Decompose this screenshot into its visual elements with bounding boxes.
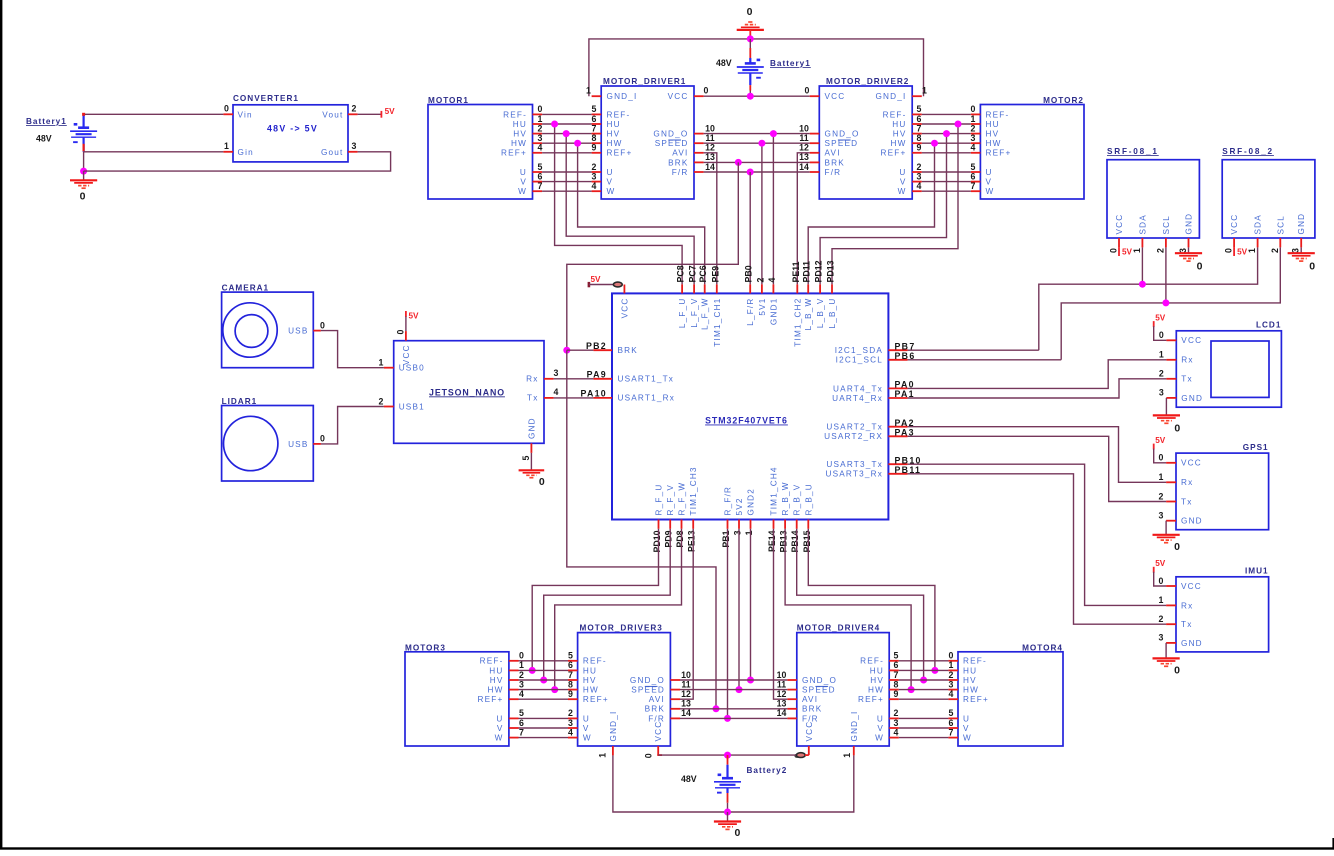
svg-text:HV: HV	[583, 676, 597, 685]
svg-text:L_F_U: L_F_U	[678, 298, 687, 329]
wire HV driver4-motor4	[899, 679, 949, 681]
node HW4 junction	[908, 686, 915, 693]
wire HW motor1-driver1	[542, 142, 592, 144]
wire HW-R drop to PD11	[808, 143, 934, 284]
svg-text:7: 7	[538, 181, 543, 191]
wire 5V2 PB1-3 drop to SPEED row	[738, 529, 740, 690]
svg-text:7: 7	[949, 727, 954, 737]
pin REF+ of MOTOR_DRIVER4 right (stub+number+label)	[889, 698, 899, 700]
wire GND_O row bottom	[680, 679, 787, 681]
sbc U11 JETSON_NANO box	[394, 341, 544, 444]
svg-text:TIM1_CH4: TIM1_CH4	[770, 466, 779, 515]
svg-text:4: 4	[568, 727, 573, 737]
pin GND_I of driver2	[912, 95, 922, 97]
camera lens outer circle	[223, 303, 277, 357]
pin W of MOTOR2 (stub+number+label)	[971, 190, 981, 192]
svg-text:5V: 5V	[1155, 314, 1166, 323]
pin BRK of MOTOR_DRIVER4 left (stub+number+label)	[787, 708, 796, 710]
node HU-L junction	[551, 121, 558, 128]
svg-text:R_B_U: R_B_U	[804, 483, 813, 515]
pin GND of LCD1 (stub+number+label)	[1166, 397, 1176, 399]
node HU4 junction	[931, 667, 938, 674]
svg-text:0: 0	[1159, 453, 1164, 463]
pin GND1 / 4 (STM32 top stub+labels)	[772, 284, 774, 293]
pin HW of MOTOR_DRIVER2 right (stub+number+label)	[912, 142, 922, 144]
svg-text:L_F_V: L_F_V	[690, 298, 699, 328]
svg-text:HW: HW	[511, 139, 527, 148]
svg-text:PD10: PD10	[652, 530, 662, 552]
svg-text:48V: 48V	[716, 58, 732, 68]
svg-text:MOTOR_DRIVER2: MOTOR_DRIVER2	[826, 77, 909, 86]
svg-text:0: 0	[1159, 330, 1164, 340]
svg-text:GND: GND	[1297, 213, 1306, 235]
svg-text:VCC: VCC	[1230, 214, 1239, 235]
svg-text:Tx: Tx	[1181, 620, 1193, 629]
svg-text:VCC: VCC	[1181, 459, 1202, 468]
ground symbol (LCD1)	[1153, 415, 1180, 423]
pin AVI of MOTOR_DRIVER1 right (stub+number+label)	[694, 152, 704, 154]
wire R_B_V PB14 drop to HV4	[797, 529, 924, 680]
wire REF+ motor1-driver1	[542, 152, 592, 154]
overbar on SPEED driver1	[668, 139, 681, 141]
motor M2 box	[980, 105, 1084, 200]
svg-text:HU: HU	[892, 120, 906, 129]
svg-text:UART4_Tx: UART4_Tx	[833, 384, 883, 393]
driver U2 MOTOR_DRIVER1 box	[601, 86, 694, 199]
pin VCC of IMU1 (stub+number+label)	[1166, 585, 1176, 587]
svg-text:HV: HV	[607, 130, 621, 139]
svg-text:F/R: F/R	[672, 168, 689, 177]
node rail-vcc junction	[747, 93, 754, 100]
svg-text:Gin: Gin	[238, 148, 254, 157]
pin U of MOTOR4 (stub+number+label)	[948, 717, 958, 719]
svg-text:HU: HU	[963, 666, 977, 675]
pin VCC of driver4 (bottom)	[808, 746, 810, 755]
node BRK junction	[735, 159, 742, 166]
wire jetson 5V to VCC stub	[405, 317, 407, 332]
pin USART2_RX / PA3 (STM32 right stub+labels)	[888, 435, 907, 437]
node SDA junction	[1139, 281, 1146, 288]
node SPEED junction	[758, 140, 765, 147]
wire HU motor1-driver1	[542, 123, 592, 125]
svg-text:W: W	[986, 187, 995, 196]
pin REF- of MOTOR3 (stub+number+label)	[509, 660, 519, 662]
motor M4 box	[958, 652, 1063, 746]
pin UART4_Tx / PA0 (STM32 right stub+labels)	[888, 387, 907, 389]
wire AVI driver2 to TIM1_CH2	[797, 153, 809, 285]
svg-text:5V: 5V	[1237, 248, 1248, 257]
svg-text:Tx: Tx	[1181, 375, 1193, 384]
svg-text:0: 0	[1224, 248, 1234, 253]
wire Vout to 5V net label	[358, 113, 382, 115]
svg-text:I2C1_SDA: I2C1_SDA	[835, 346, 883, 355]
junction bubble at STM32 VCC	[613, 282, 622, 287]
svg-text:2: 2	[949, 670, 954, 680]
pin U of MOTOR_DRIVER2 right (stub+number+label)	[912, 171, 922, 173]
pin REF- of MOTOR2 (stub+number+label)	[971, 113, 981, 115]
wire REF- motor1-driver1	[542, 113, 592, 115]
svg-text:PE11: PE11	[791, 261, 801, 282]
svg-text:5: 5	[949, 708, 954, 718]
svg-text:SDA: SDA	[1254, 214, 1263, 234]
node GND_O junction	[770, 130, 777, 137]
svg-text:TIM1_CH1: TIM1_CH1	[713, 298, 722, 347]
svg-text:4: 4	[949, 689, 954, 699]
battery B3 (bottom)	[714, 765, 741, 794]
ground symbol (SRF1)	[1175, 253, 1202, 261]
node HW-R junction	[931, 140, 938, 147]
svg-text:GND_O: GND_O	[825, 130, 860, 139]
pin REF- of MOTOR_DRIVER3 left (stub+number+label)	[568, 660, 578, 662]
ground symbol (left battery)	[83, 171, 85, 180]
svg-text:V: V	[986, 178, 993, 187]
wire HU-R drop to PD13	[832, 124, 958, 284]
svg-text:VCC: VCC	[1181, 336, 1202, 345]
overbar on SPEED driver3	[645, 685, 658, 687]
power flag 5V at IMU1 VCC	[1153, 567, 1155, 573]
svg-text:GND2: GND2	[747, 488, 756, 516]
wire HV motor1-driver1	[542, 133, 592, 135]
svg-text:USB: USB	[288, 440, 308, 449]
pin R_B_V / PB14 (STM32 bottom stub+labels)	[796, 520, 798, 529]
camera lens inner circle	[235, 315, 268, 348]
pin U of MOTOR_DRIVER3 left (stub+number+label)	[568, 717, 578, 719]
wire W driver2-motor2	[922, 190, 971, 192]
svg-text:R_B_W: R_B_W	[781, 481, 790, 515]
svg-text:1: 1	[598, 753, 608, 758]
node F/R junction	[747, 169, 754, 176]
wire PB2 junction to stub	[567, 349, 594, 351]
mcu U10 STM32F407VET6 box	[612, 293, 888, 519]
pin VCC stub (STM32 top)	[623, 285, 625, 294]
wire SPEED row bottom	[680, 689, 787, 691]
wire R_F_W PD8 drop to HW3	[555, 529, 682, 690]
pin REF+ of MOTOR4 (stub+number+label)	[948, 698, 958, 700]
node GND_O bottom junction	[747, 677, 754, 684]
svg-text:5: 5	[971, 162, 976, 172]
pin Vout stub	[348, 113, 358, 115]
svg-text:PB15: PB15	[802, 530, 812, 552]
svg-text:TIM1_CH2: TIM1_CH2	[793, 298, 802, 347]
svg-text:BRK: BRK	[645, 705, 665, 714]
pin VCC of jetson	[405, 331, 407, 341]
svg-text:3: 3	[894, 718, 899, 728]
pin AVI of MOTOR_DRIVER3 right (stub+number+label)	[670, 698, 680, 700]
svg-text:Tx: Tx	[1181, 497, 1193, 506]
node SPEED bottom junction	[736, 686, 743, 693]
pin HW of MOTOR_DRIVER3 left (stub+number+label)	[568, 689, 578, 691]
svg-text:USART3_Tx: USART3_Tx	[826, 460, 883, 469]
wire SPEED row to 5V1	[704, 142, 810, 144]
pin TIM1_CH1 / PE9 (STM32 top stub+labels)	[716, 284, 718, 293]
pin R_F/R / PB1 (STM32 bottom stub+labels)	[727, 520, 729, 529]
pin REF- of MOTOR_DRIVER4 right (stub+number+label)	[889, 660, 899, 662]
node HU-R junction	[955, 121, 962, 128]
pin L_F_U / PC8 (STM32 top stub+labels)	[681, 284, 683, 293]
svg-text:AVI: AVI	[825, 149, 841, 158]
svg-text:1: 1	[949, 660, 954, 670]
svg-text:Battery1: Battery1	[770, 59, 811, 68]
node HV3 junction	[540, 677, 547, 684]
svg-text:0: 0	[1159, 576, 1164, 586]
svg-text:GND_I: GND_I	[875, 92, 906, 101]
svg-text:0: 0	[1197, 261, 1203, 273]
wire GPS1 5V to VCC stub	[1154, 449, 1166, 463]
wire battery2 bottom stub	[727, 793, 729, 803]
svg-text:2: 2	[1155, 248, 1165, 253]
pin SPEED of MOTOR_DRIVER3 right (stub+number+label)	[670, 689, 680, 691]
svg-text:0: 0	[747, 6, 753, 18]
svg-text:VCC: VCC	[654, 721, 663, 742]
pin R_F_W / PD8 (STM32 bottom stub+labels)	[681, 520, 683, 529]
wire lidar USB to jetson USB1	[321, 407, 384, 444]
svg-text:PA9: PA9	[587, 370, 607, 380]
wire GPS1 GND to ground	[1165, 521, 1167, 535]
svg-text:12: 12	[705, 143, 715, 153]
svg-text:V: V	[497, 724, 504, 733]
svg-text:5: 5	[568, 651, 573, 661]
wire REF- driver2-motor2	[922, 113, 971, 115]
driver U4 MOTOR_DRIVER3 box	[578, 633, 671, 746]
svg-text:U: U	[496, 714, 503, 723]
pin Vin stub	[223, 113, 233, 115]
pin SPEED of MOTOR_DRIVER4 left (stub+number+label)	[787, 689, 796, 691]
pin SCL of SRF-08_2 (stub+number+label)	[1279, 238, 1281, 247]
wire jetson GND to ground	[530, 453, 532, 470]
ground symbol (SRF2)	[1288, 253, 1315, 261]
sensor SRF-08_2 box	[1222, 160, 1315, 238]
svg-text:13: 13	[705, 152, 715, 162]
svg-text:GND: GND	[1181, 639, 1203, 648]
svg-text:U: U	[607, 168, 614, 177]
svg-text:5: 5	[521, 456, 531, 461]
wire HV driver2-motor2	[922, 133, 971, 135]
pin REF+ of MOTOR_DRIVER2 right (stub+number+label)	[912, 152, 922, 154]
pin GND2 / 1 (STM32 bottom stub+labels)	[750, 520, 752, 529]
svg-text:REF+: REF+	[607, 149, 633, 158]
svg-text:HU: HU	[513, 120, 527, 129]
svg-text:REF-: REF-	[986, 110, 1010, 119]
wire REF- driver4-motor4	[899, 660, 949, 662]
svg-text:3: 3	[1159, 633, 1164, 643]
node HV-L junction	[563, 130, 570, 137]
svg-text:4: 4	[767, 278, 777, 283]
svg-text:MOTOR2: MOTOR2	[1043, 96, 1084, 105]
svg-text:0: 0	[1174, 422, 1180, 434]
pin HU of MOTOR_DRIVER4 right (stub+number+label)	[889, 669, 899, 671]
pin V of MOTOR1 (stub+number+label)	[533, 181, 543, 183]
svg-text:Gout: Gout	[321, 148, 344, 157]
svg-text:SRF-08_1: SRF-08_1	[1107, 147, 1159, 156]
power flag 5V at SRF-08_1 VCC	[1118, 247, 1120, 256]
svg-text:5: 5	[519, 708, 524, 718]
pin U of MOTOR2 (stub+number+label)	[971, 171, 981, 173]
svg-text:2: 2	[917, 162, 922, 172]
pin W of MOTOR_DRIVER4 right (stub+number+label)	[889, 737, 899, 739]
wire jetson Rx to PA9	[554, 378, 594, 380]
svg-text:PB1: PB1	[721, 530, 731, 547]
pin W of MOTOR_DRIVER3 left (stub+number+label)	[568, 737, 578, 739]
svg-text:3: 3	[592, 171, 597, 181]
pin SCL of SRF-08_1 (stub+number+label)	[1165, 238, 1167, 247]
svg-text:JETSON_NANO: JETSON_NANO	[429, 387, 505, 397]
wire Gin row	[84, 151, 224, 153]
pin R_F_U / PD10 (STM32 bottom stub+labels)	[658, 520, 660, 529]
svg-text:USART1_Tx: USART1_Tx	[618, 375, 675, 384]
pin Tx of GPS1 (stub+number+label)	[1166, 501, 1176, 503]
svg-text:9: 9	[568, 689, 573, 699]
svg-text:1: 1	[744, 530, 754, 535]
svg-text:2: 2	[1270, 248, 1280, 253]
module LCD1 box	[1176, 331, 1281, 407]
svg-text:L_F_W: L_F_W	[701, 298, 710, 330]
svg-text:R_B_V: R_B_V	[793, 484, 802, 516]
svg-text:USART1_Rx: USART1_Rx	[618, 394, 676, 403]
module IMU1 box	[1176, 577, 1269, 652]
svg-text:GND_O: GND_O	[653, 130, 688, 139]
svg-text:GND_O: GND_O	[630, 676, 665, 685]
pin U of MOTOR_DRIVER1 left (stub+number+label)	[592, 171, 602, 173]
pin REF- of MOTOR4 (stub+number+label)	[948, 660, 958, 662]
svg-text:2: 2	[379, 396, 384, 406]
svg-text:7: 7	[894, 670, 899, 680]
pin Tx of LCD1 (stub+number+label)	[1166, 378, 1176, 380]
svg-text:W: W	[518, 187, 527, 196]
pin HU of MOTOR3 (stub+number+label)	[509, 669, 519, 671]
svg-text:U: U	[963, 714, 970, 723]
svg-text:1: 1	[971, 114, 976, 124]
wire HU driver2-motor2	[922, 123, 971, 125]
svg-text:V: V	[877, 724, 884, 733]
pin REF- of MOTOR_DRIVER1 left (stub+number+label)	[592, 113, 602, 115]
wire SRF1 SDA drop	[1141, 247, 1143, 284]
pin UART4_Rx / PA1 (STM32 right stub+labels)	[888, 397, 907, 399]
svg-text:HW: HW	[583, 686, 599, 695]
power flag 5V at jetson VCC	[405, 311, 407, 317]
svg-text:7: 7	[592, 123, 597, 133]
battery B1 (left)	[70, 114, 97, 152]
svg-text:V: V	[520, 178, 527, 187]
svg-text:MOTOR_DRIVER1: MOTOR_DRIVER1	[603, 77, 686, 86]
svg-text:4: 4	[538, 143, 543, 153]
wire V driver2-motor2	[922, 181, 971, 183]
svg-text:1: 1	[1159, 595, 1164, 605]
svg-text:5V: 5V	[1155, 436, 1166, 445]
svg-text:REF+: REF+	[986, 149, 1012, 158]
svg-text:1: 1	[842, 753, 852, 758]
svg-text:3: 3	[733, 530, 743, 535]
svg-text:9: 9	[894, 689, 899, 699]
svg-text:2: 2	[1159, 369, 1164, 379]
wire REF- motor3-driver3	[519, 660, 569, 662]
svg-text:PD9: PD9	[664, 530, 674, 547]
pin BRK of MOTOR_DRIVER2 left (stub+number+label)	[810, 161, 820, 163]
pin Tx of jetson	[544, 397, 554, 399]
svg-text:9: 9	[592, 143, 597, 153]
node battery1-left ground junction	[80, 168, 87, 175]
svg-text:CONVERTER1: CONVERTER1	[233, 94, 299, 103]
svg-text:0: 0	[539, 476, 545, 488]
pin GND_O of MOTOR_DRIVER3 right (stub+number+label)	[670, 679, 680, 681]
svg-text:2: 2	[519, 670, 524, 680]
node HW-L junction	[574, 140, 581, 147]
svg-text:1: 1	[1132, 248, 1142, 253]
pin R_F_V / PD9 (STM32 bottom stub+labels)	[669, 520, 671, 529]
svg-text:10: 10	[799, 123, 809, 133]
page border left	[0, 0, 2, 850]
pin USART1_Tx (STM32 left)	[593, 378, 612, 380]
wire GND_O row to GND1	[704, 133, 810, 135]
svg-text:Vin: Vin	[238, 110, 253, 119]
pin VCC of GPS1 (stub+number+label)	[1166, 462, 1176, 464]
svg-text:14: 14	[799, 162, 809, 172]
svg-text:5: 5	[538, 162, 543, 172]
pin L_F_V / PC7 (STM32 top stub+labels)	[693, 284, 695, 293]
pin U of MOTOR1 (stub+number+label)	[533, 171, 543, 173]
svg-text:48V -> 5V: 48V -> 5V	[267, 124, 318, 134]
pin USB0 of jetson	[384, 367, 394, 369]
svg-text:SCL: SCL	[1162, 215, 1171, 235]
sensor SRF-08_1 box	[1107, 160, 1199, 238]
pin U of MOTOR_DRIVER4 right (stub+number+label)	[889, 717, 899, 719]
svg-text:GND1: GND1	[769, 298, 778, 326]
pin USB of CAMERA1	[313, 330, 321, 332]
wire battery1 bottom stub	[749, 85, 751, 90]
svg-text:5: 5	[894, 651, 899, 661]
svg-text:5V2: 5V2	[735, 497, 744, 515]
wire PB11 to IMU Tx	[908, 474, 1167, 624]
svg-text:Rx: Rx	[1181, 601, 1193, 610]
pin AVI of MOTOR_DRIVER2 left (stub+number+label)	[810, 152, 820, 154]
wire SRF1 GND to ground	[1188, 247, 1190, 253]
svg-text:4: 4	[519, 689, 524, 699]
converter U1 box	[233, 105, 348, 162]
svg-text:7: 7	[519, 727, 524, 737]
svg-text:2: 2	[894, 708, 899, 718]
svg-text:GND_I: GND_I	[850, 710, 859, 741]
wire PA0 to LCD Rx	[908, 360, 1167, 389]
pin L_F_W / PC6 (STM32 top stub+labels)	[704, 284, 706, 293]
svg-text:REF+: REF+	[963, 695, 989, 704]
wire REF+ motor3-driver3	[519, 698, 569, 700]
pin GND_O of MOTOR_DRIVER1 right (stub+number+label)	[694, 133, 704, 135]
pin VCC of driver3 (bottom)	[657, 746, 659, 755]
wire PA2 to GPS Rx	[908, 427, 1167, 483]
pin Gin stub	[223, 151, 233, 153]
svg-text:R_F_V: R_F_V	[666, 484, 675, 515]
battery B2 (top center)	[737, 58, 764, 85]
svg-text:W: W	[898, 187, 907, 196]
svg-text:Rx: Rx	[1181, 478, 1193, 487]
pin W of MOTOR4 (stub+number+label)	[948, 737, 958, 739]
svg-text:REF+: REF+	[501, 149, 527, 158]
wire AVI driver1 to TIM1_CH1	[704, 153, 717, 285]
svg-text:CAMERA1: CAMERA1	[222, 284, 270, 293]
svg-text:PC8: PC8	[676, 265, 686, 282]
pin V of MOTOR2 (stub+number+label)	[971, 181, 981, 183]
motor M3 box	[405, 652, 509, 746]
svg-text:0: 0	[734, 827, 740, 839]
svg-text:MOTOR3: MOTOR3	[405, 643, 446, 652]
pin USB1 of jetson	[384, 406, 394, 408]
svg-text:REF+: REF+	[881, 149, 907, 158]
pin V of MOTOR_DRIVER1 left (stub+number+label)	[592, 181, 602, 183]
svg-text:AVI: AVI	[802, 695, 818, 704]
svg-text:MOTOR1: MOTOR1	[428, 96, 469, 105]
pin HV of MOTOR_DRIVER3 left (stub+number+label)	[568, 679, 578, 681]
svg-text:V: V	[963, 724, 970, 733]
pin GND of SRF-08_2 (stub+number+label)	[1300, 238, 1302, 247]
